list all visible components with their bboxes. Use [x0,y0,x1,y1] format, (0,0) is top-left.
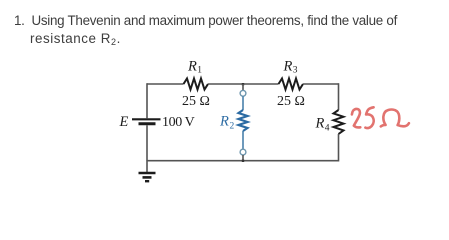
battery E top plate [132,118,161,120]
label R3 [283,59,298,76]
wire right lower [338,134,340,162]
label R4 [315,116,330,134]
label R2 (blue) [219,114,235,132]
svg-text:R: R [219,114,229,130]
resistor R3 [279,79,304,90]
wire left upper [146,83,148,118]
svg-text:3: 3 [293,66,298,76]
battery E bottom plate [139,122,156,125]
svg-text:R: R [187,59,197,75]
svg-text:R: R [315,116,325,132]
wire ground stem [146,161,148,172]
node terminal circle top [240,90,246,96]
svg-text:25 Ω: 25 Ω [182,94,210,109]
node terminal circle bottom [240,149,246,155]
svg-text:E: E [119,114,129,130]
resistor R1 [184,79,209,90]
wire stub top of R2 [242,84,244,90]
svg-text:25 Ω: 25 Ω [277,94,305,109]
red digit 2 [352,109,360,128]
node junction top of R2 branch [242,83,244,85]
wire R2 lead lower (blue) [242,131,244,149]
red digit 5 [365,107,373,128]
wire stub bottom of R2 [242,155,244,161]
label R1 [187,59,202,76]
wire top-right segment [303,83,339,85]
node junction bottom of R2 branch [242,160,244,162]
red omega [381,110,409,127]
svg-text:4: 4 [325,124,330,134]
ground [139,173,156,181]
wire R2 lead upper (blue) [242,96,244,110]
wire left lower [146,125,148,161]
handwritten red annotation 25 ohm [352,107,409,128]
wire top-middle segment [208,83,279,85]
wire right upper [338,83,340,110]
wire top-left segment [147,83,184,85]
resistor R2 (blue) [239,110,248,131]
svg-text:1: 1 [197,66,202,76]
svg-text:R: R [283,59,293,75]
svg-text:100 V: 100 V [162,115,195,130]
resistor R4 [334,110,344,134]
svg-text:2: 2 [230,122,235,132]
wire bottom [147,160,339,162]
